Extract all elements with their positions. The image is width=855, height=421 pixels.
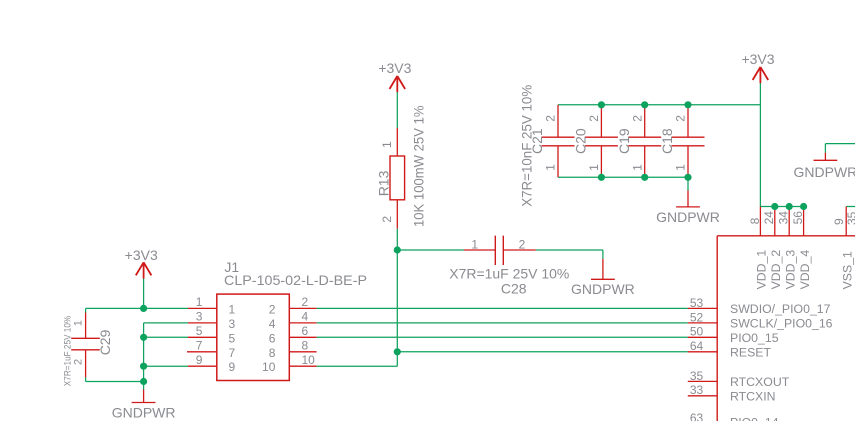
svg-text:1: 1 xyxy=(72,320,84,326)
svg-text:24: 24 xyxy=(762,211,776,225)
svg-text:7: 7 xyxy=(196,339,203,353)
svg-text:1: 1 xyxy=(471,237,478,251)
svg-text:8: 8 xyxy=(748,217,762,224)
svg-text:53: 53 xyxy=(690,296,704,310)
svg-text:33: 33 xyxy=(690,383,704,397)
svg-text:PIO0_14: PIO0_14 xyxy=(730,416,779,421)
svg-text:2: 2 xyxy=(674,115,688,122)
svg-text:CLP-105-02-L-D-BE-P: CLP-105-02-L-D-BE-P xyxy=(224,272,367,288)
svg-text:6: 6 xyxy=(269,331,276,345)
svg-text:2: 2 xyxy=(302,295,309,309)
svg-text:1: 1 xyxy=(229,302,236,316)
svg-text:GNDPWR: GNDPWR xyxy=(112,404,176,420)
svg-text:4: 4 xyxy=(269,317,276,331)
svg-text:+3V3: +3V3 xyxy=(378,60,411,76)
svg-text:1: 1 xyxy=(674,164,688,171)
svg-text:10K 100mW 25V 1%: 10K 100mW 25V 1% xyxy=(410,106,426,228)
svg-text:X7R=1uF 25V 10%: X7R=1uF 25V 10% xyxy=(63,315,74,386)
svg-text:2: 2 xyxy=(630,115,644,122)
svg-text:8: 8 xyxy=(269,346,276,360)
svg-text:5: 5 xyxy=(229,331,236,345)
svg-text:SWDIO/_PIO0_17: SWDIO/_PIO0_17 xyxy=(730,302,831,316)
svg-text:PIO0_15: PIO0_15 xyxy=(730,331,779,345)
svg-text:10: 10 xyxy=(302,353,316,367)
svg-text:1: 1 xyxy=(630,164,644,171)
svg-text:1: 1 xyxy=(196,295,203,309)
svg-text:2: 2 xyxy=(269,302,276,316)
svg-text:5: 5 xyxy=(196,324,203,338)
svg-text:X7R=10nF 25V 10%: X7R=10nF 25V 10% xyxy=(518,85,534,207)
svg-text:VDD_2: VDD_2 xyxy=(769,250,783,290)
svg-text:+3V3: +3V3 xyxy=(741,51,774,67)
svg-text:VDD_1: VDD_1 xyxy=(755,250,769,290)
svg-text:GNDPWR: GNDPWR xyxy=(656,209,720,225)
svg-text:8: 8 xyxy=(302,339,309,353)
svg-text:34: 34 xyxy=(777,211,791,225)
svg-text:VDD_3: VDD_3 xyxy=(783,250,797,290)
svg-text:GNDPWR: GNDPWR xyxy=(794,164,855,180)
svg-text:C29: C29 xyxy=(97,329,113,355)
svg-text:6: 6 xyxy=(302,324,309,338)
svg-text:1: 1 xyxy=(380,141,394,148)
svg-text:63: 63 xyxy=(690,411,704,421)
svg-text:56: 56 xyxy=(791,211,805,225)
svg-text:64: 64 xyxy=(690,339,704,353)
svg-text:2: 2 xyxy=(544,115,558,122)
svg-text:C19: C19 xyxy=(616,128,632,154)
svg-text:10: 10 xyxy=(262,360,276,374)
svg-text:2: 2 xyxy=(380,216,394,223)
svg-text:VSS_1: VSS_1 xyxy=(840,251,854,289)
svg-text:1: 1 xyxy=(587,164,601,171)
svg-text:X7R=1uF 25V 10%: X7R=1uF 25V 10% xyxy=(449,265,569,281)
svg-text:50: 50 xyxy=(690,325,704,339)
svg-text:RTCXIN: RTCXIN xyxy=(730,390,776,404)
svg-text:9: 9 xyxy=(229,360,236,374)
svg-text:7: 7 xyxy=(229,346,236,360)
svg-text:2: 2 xyxy=(72,359,84,365)
svg-text:9: 9 xyxy=(196,353,203,367)
svg-text:35: 35 xyxy=(845,211,855,225)
svg-text:3: 3 xyxy=(196,310,203,324)
svg-text:+3V3: +3V3 xyxy=(125,247,158,263)
svg-text:3: 3 xyxy=(229,317,236,331)
svg-text:C18: C18 xyxy=(659,128,675,154)
svg-text:C28: C28 xyxy=(501,280,527,296)
svg-text:52: 52 xyxy=(690,310,704,324)
svg-text:R13: R13 xyxy=(376,170,392,196)
svg-text:VDD_4: VDD_4 xyxy=(798,250,812,290)
svg-text:RTCXOUT: RTCXOUT xyxy=(730,375,790,389)
svg-text:SWCLK/_PIO0_16: SWCLK/_PIO0_16 xyxy=(730,317,833,331)
svg-text:4: 4 xyxy=(302,310,309,324)
svg-text:9: 9 xyxy=(832,218,846,225)
svg-text:35: 35 xyxy=(690,369,704,383)
svg-text:RESET: RESET xyxy=(730,346,771,360)
svg-text:C20: C20 xyxy=(573,128,589,154)
svg-text:GNDPWR: GNDPWR xyxy=(571,281,635,297)
svg-text:2: 2 xyxy=(519,237,526,251)
svg-text:1: 1 xyxy=(544,164,558,171)
svg-text:2: 2 xyxy=(587,115,601,122)
